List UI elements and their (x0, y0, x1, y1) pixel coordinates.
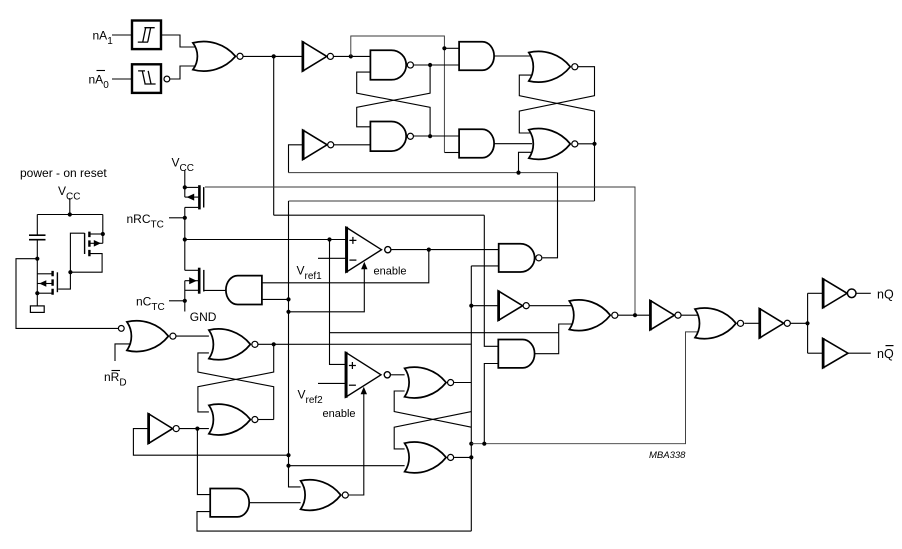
M3 bulk arm with arrow (91, 242, 103, 244)
svg-text:GND: GND (190, 310, 217, 324)
M3 gate loop (70, 233, 84, 272)
M2 gate wire to AND-m output (204, 289, 226, 291)
CMP1 output junction (427, 248, 431, 252)
I3 output junction (195, 427, 199, 431)
wire I1-out loop over NAND latch to AND column (351, 36, 445, 152)
CMP1 body (346, 227, 382, 272)
junction nC label (183, 299, 187, 303)
wire POR gate node to M4 gate (58, 272, 70, 289)
wire NOR-M2 output to vertical-471 (454, 456, 471, 458)
junction NOR-M2 output (469, 455, 473, 459)
M1 source arm (185, 186, 198, 188)
junction comp+ riser (327, 237, 331, 241)
net-288 vertical (enable distribution) (289, 201, 301, 487)
M3 right bus (102, 215, 104, 244)
junction nRC label (183, 216, 187, 220)
wire I4 input from vertical-471 (471, 305, 498, 307)
wire CMP2 output to NOR-M1 (391, 374, 405, 376)
wire NOR-B third input from rail-172 (519, 152, 533, 172)
wire I3 input loop from net-288 (133, 429, 288, 456)
junction AND1 upper tap (442, 46, 446, 50)
wire NAND1 output to AND1 lower input (413, 64, 459, 66)
wire BUF-Q output to nQbar (848, 352, 871, 354)
wire NAND1-out cross-coupling to NAND2 upper input (357, 65, 430, 127)
NOR-B body (529, 129, 571, 160)
riser output node to buffers (807, 293, 809, 353)
wire INV-Q output to nQ (856, 292, 871, 294)
OR-C body (301, 480, 341, 511)
wire NOR-M2 lower input from net-288 (289, 465, 405, 467)
node X junction (272, 54, 276, 58)
wire AND1 output to NOR-T (494, 55, 532, 57)
junction nRC to comparator rail (183, 237, 187, 241)
NOR-T body (529, 51, 571, 82)
AND-L body (210, 489, 249, 517)
rail-443 to OR-B lower input (471, 332, 701, 444)
NAND1 body (370, 50, 406, 80)
NOR-L1 body (209, 329, 251, 360)
rail nRC to comparator + inputs (185, 239, 346, 241)
BUF-Q (823, 338, 848, 368)
wire M1 drain down nRC node (184, 207, 186, 270)
M2 source-bulk tie to GND (184, 281, 186, 312)
wire to AND2 lower input (444, 152, 459, 154)
substrate box symbol (30, 306, 44, 313)
wire NOR-L2 output cross-coupling to NOR-L1 lower input (198, 353, 274, 420)
wire AND-R lower input from rail-443 (484, 364, 498, 444)
M2 gate bar (203, 270, 205, 292)
Schmitt trigger ST1 (rising) box (132, 21, 161, 50)
M4 bulk arm with arrow (37, 283, 51, 285)
M1 gate bar (203, 187, 205, 207)
AND1 body (459, 42, 494, 71)
rail-215 node X line (274, 214, 485, 216)
NOR-M1 body (405, 367, 447, 398)
wire NOR-B output cross-coupling to NOR-T lower input (519, 75, 594, 144)
wire POR left branch to capacitor (36, 215, 38, 236)
svg-text:power - on reset: power - on reset (20, 166, 107, 180)
NAND2 body (370, 122, 406, 152)
vertical-471 latch distribution (470, 266, 472, 531)
M3 source arm down-left path (70, 254, 102, 273)
CMP2 body (345, 352, 381, 397)
wire NAND-R lower input from latch vertical (471, 265, 498, 267)
wire NAND2 output to AND2 upper input (413, 135, 459, 137)
CMP1 minus input stub Vref1 (318, 257, 346, 259)
wire AND-m upper input from comparator-1 output loop (262, 250, 429, 283)
wire capacitor to POR bus (36, 240, 38, 306)
wire I2 input from rail-172 (289, 145, 303, 173)
wire AND-L output to OR-C lower input (249, 502, 300, 504)
junction M4 source (35, 291, 39, 295)
wire ST2 output to NOR1 lower input (170, 66, 198, 79)
wire NOR-L1 output to vertical-471 (258, 343, 471, 345)
wire to AND1 upper input (444, 47, 459, 49)
NAND-R body (499, 244, 535, 272)
svg-text:nQ: nQ (877, 347, 894, 361)
M2 bulk arm with arrow (185, 280, 198, 282)
junction rail-172 tap (516, 171, 520, 175)
CMP2 minus input stub Vref2 (318, 382, 345, 384)
junction AND-m lower input tap (286, 297, 290, 301)
wire POR cap node to OR1 input bubble (16, 259, 118, 329)
M3 gate bar (84, 233, 86, 254)
wire OR-A output to inverter I5 (618, 314, 650, 316)
NOR1 body (193, 41, 236, 71)
wire NOR-L2 output (258, 419, 273, 421)
ST2 hysteresis symbol (138, 71, 156, 84)
wire AND-R upper input from rail-215 drop (484, 215, 498, 346)
wire to BUF-Q input (808, 352, 823, 354)
wire I1 output to NAND1 upper input (334, 55, 371, 57)
M1 bulk arm with arrow (185, 196, 198, 198)
Schmitt trigger ST2 (falling) box (132, 64, 161, 93)
wire AND2 output to NOR-B (494, 143, 532, 145)
wire ST1 output to NOR1 upper input (161, 35, 198, 47)
enable1 arrow into CMP1 (289, 267, 365, 312)
svg-text:enable: enable (323, 408, 356, 420)
svg-text:nQ: nQ (877, 288, 894, 302)
junction enable1 tap (286, 310, 290, 314)
junction I3 loop tap (286, 453, 290, 457)
wire NOR-T output cross-coupling to NOR-B upper input (519, 67, 594, 133)
wire NAND2-out cross-coupling to NAND1 lower input (357, 72, 430, 136)
transistor M1 PMOS channel bar (198, 185, 201, 209)
I5 (650, 300, 675, 330)
wire I3 output to NOR-L2 lower input (179, 428, 209, 430)
wire NOR1 output to inverter I1 (243, 55, 302, 57)
OR1 body (127, 321, 168, 352)
I4 (498, 291, 522, 321)
wire NOR-M2 upper input cross-coupling from NOR-M1 output (394, 412, 471, 449)
OR-A body (569, 300, 610, 331)
wire NAND-R output up to rail-172 (542, 173, 557, 258)
M4 gate bar (56, 272, 58, 292)
wire node X down to rail 215 (273, 56, 275, 215)
junction AND-R lower input (482, 442, 486, 446)
NAND2 output junction (428, 134, 432, 138)
M4 source arm (37, 292, 51, 294)
wire I6 output to output buffers (790, 322, 807, 324)
wire comp+ net to AND-R output riser (330, 332, 559, 334)
wire OR1 output to NOR-L1 (176, 335, 209, 337)
capacitor C1 (29, 235, 46, 240)
node I1-out junction (349, 54, 353, 58)
wire nRD to OR1 lower input (115, 344, 131, 361)
AND-m body (226, 276, 262, 305)
wire nA1 input to Schmitt box ST1 (112, 34, 132, 36)
M1 drain arm (185, 206, 198, 208)
wire VCC to PMOS source (184, 170, 186, 187)
wire VCC POR tick (69, 198, 71, 215)
M4 drain arm (37, 273, 51, 275)
riser comp1+ to comp2+ (330, 240, 346, 365)
wire I4 output to OR-A upper input (530, 305, 577, 307)
wire AND-m lower input from net-288 (262, 298, 289, 300)
POR top rail (37, 214, 103, 216)
M1 bulk-source tie (184, 187, 186, 197)
svg-text:enable: enable (374, 266, 407, 278)
OR1 input bubble (118, 326, 124, 332)
transistor M2 NMOS channel bar (198, 268, 201, 294)
transistor M4 (POR lower) channel segments (51, 271, 53, 295)
junction POR gate node (68, 270, 72, 274)
M2 drain arm (185, 269, 198, 271)
M3 drain arm to right bus (91, 233, 103, 235)
wire CMP1 output to NAND-R upper input (391, 249, 499, 251)
NOR-L1 output junction (272, 342, 276, 346)
rail-172 NAND-R output feedback (289, 172, 558, 174)
wire nC label stub (169, 300, 185, 302)
NOR-M2 body (405, 442, 447, 473)
wire AND-L lower input from bottom rail (197, 512, 471, 531)
M2 source arm (185, 289, 198, 291)
enable2 arrow into CMP2 from OR-C output (349, 392, 364, 496)
NAND1 output junction (428, 63, 432, 67)
junction M3 drain (101, 232, 105, 236)
rail-201 NOR-B output line (289, 200, 595, 202)
wire OR-B output to inverter I6 (744, 322, 759, 324)
ST2 output bubble (164, 76, 170, 82)
wire NOR-L1 out cross-coupling to NOR-L2 upper input (198, 344, 274, 412)
I2 (303, 130, 328, 160)
wire NOR-M1 output to vertical-471 (454, 382, 471, 384)
wire nA0 input to Schmitt box ST2 (112, 78, 132, 80)
svg-text:MBA338: MBA338 (649, 450, 686, 461)
junction rail-187 tap (633, 313, 637, 317)
NOR-L2 body (209, 404, 251, 435)
wire to INV-Q input (808, 292, 823, 294)
INV-Q (823, 279, 848, 308)
AND2 body (459, 129, 494, 158)
I3 (148, 414, 173, 444)
wire I5 output to OR-B upper input (681, 314, 701, 316)
wire nRC label stub (169, 217, 185, 219)
NOR-B output junction (592, 142, 596, 146)
rail-187 PMOS gate line (205, 187, 635, 315)
junction POR cap node (35, 257, 39, 261)
ST1 hysteresis symbol (138, 28, 155, 42)
junction rail-443 (469, 442, 473, 446)
wire NOR-B output down to rail-201 (578, 144, 595, 201)
wire AND-R output up to OR-A lower input (535, 324, 576, 354)
I1 (302, 42, 327, 72)
transistor M3 (POR upper) channel segments (88, 232, 90, 257)
junction PMOS source (183, 185, 187, 189)
junction NOR-M2 input tap (286, 464, 290, 468)
junction I4 input tap (469, 304, 473, 308)
NOR-M1 lower input from cross-coupling (394, 391, 471, 427)
OR-B body (695, 308, 736, 339)
junction POR VCC (68, 212, 72, 216)
AND-R body (498, 340, 534, 368)
I6 (759, 308, 784, 338)
wire I2 output to NAND2 lower input (334, 144, 370, 146)
wire I3 output down to AND-L upper input (197, 429, 210, 495)
junction output node (805, 321, 809, 325)
